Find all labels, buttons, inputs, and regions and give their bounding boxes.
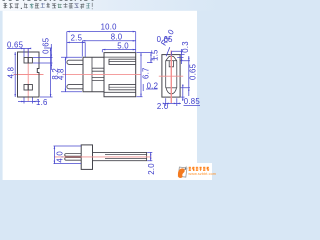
view2 latch lower	[92, 78, 104, 81]
top remnant dashes	[3, 0, 94, 1]
cut-off text remnant row	[3, 0, 5, 1]
view3 inner wall right	[176, 61, 178, 88]
view1 top contact left	[24, 58, 28, 64]
view1 top contact right	[28, 58, 32, 64]
dim 2.0 v3: lines + extensions	[166, 98, 181, 106]
svg-text:0.85: 0.85	[184, 97, 201, 106]
dim 0.3: line + extension	[172, 49, 185, 64]
svg-text:0.2: 0.2	[147, 81, 159, 90]
view1 body outline	[18, 52, 40, 97]
svg-text:0.3: 0.3	[181, 41, 190, 53]
svg-text:2.5: 2.5	[71, 33, 83, 42]
dim 0.2: leader + underline	[143, 84, 157, 91]
dim 0.65 v1 right rotated: line + extensions	[33, 44, 53, 70]
dim 6.7: line + extensions	[137, 53, 153, 97]
svg-text:2.0: 2.0	[157, 102, 169, 111]
view3 top contact slot	[169, 61, 173, 67]
view1 red vertical centerline	[27, 48, 29, 102]
dim 8.0: line + extension	[82, 41, 135, 57]
view3 outer rect	[162, 55, 180, 98]
view1 bottom contact left	[24, 85, 28, 91]
dim 4.0 v4: line + extensions	[54, 146, 82, 164]
svg-text:0.65: 0.65	[188, 63, 197, 80]
dim 0.65 v3 right: line + extensions	[181, 56, 190, 96]
watermark CJK line (simulated): 深圳西美五金加工网	[189, 167, 210, 171]
svg-text:1.5: 1.5	[151, 49, 160, 61]
watermark white box	[197, 163, 212, 180]
dim 0.65 v1 top: line + extensions	[7, 48, 30, 57]
top caption text (simulated CJK): 各位亲. 谁家有这个东东的请联系我!	[4, 3, 8, 9]
dim 4.8 v1 left: line	[14, 52, 16, 97]
svg-text:10.0: 10.0	[101, 22, 118, 31]
logo tilted square	[178, 167, 187, 177]
top text line (simulated CJK)	[4, 3, 93, 10]
view2 red centerline	[64, 73, 141, 75]
dim 0.65 v2 top-right leader	[153, 56, 155, 61]
view2 top slot inner line	[109, 61, 136, 63]
view4 barrel inner lines	[105, 155, 147, 159]
arrowheads	[21, 48, 31, 50]
view3 inner wall left	[165, 61, 167, 88]
view2 latch upper	[92, 68, 104, 71]
dim 2.5: line + extension	[67, 42, 85, 57]
view4 barrel outline	[93, 152, 147, 160]
dim 4.8 v2: line + extensions	[61, 57, 82, 92]
view4 lower prong pill	[65, 158, 81, 161]
logo pen nib	[184, 166, 186, 170]
view2 plate inner line	[91, 57, 93, 92]
view1 bottom contact right	[28, 85, 32, 91]
view3 red horizontal centerline	[159, 75, 183, 77]
view2 left plate	[83, 57, 104, 92]
page background	[0, 0, 220, 180]
svg-text:0.65: 0.65	[7, 40, 24, 49]
svg-text:0.65: 0.65	[42, 37, 51, 54]
view4 body rect	[81, 145, 92, 170]
view1 red horizontal centerline	[14, 74, 44, 76]
svg-text:8.0: 8.0	[111, 33, 123, 42]
view2 main body	[104, 53, 136, 97]
dim 5.0: line + extension	[102, 50, 135, 53]
view2 top prong pill	[67, 60, 83, 64]
svg-text:6.7: 6.7	[142, 67, 151, 79]
dim 10.0: line + extensions	[67, 32, 136, 59]
dim 2.0 v4: line + extensions	[147, 152, 152, 160]
view2 top slot	[109, 59, 136, 64]
view3 dome base line	[166, 60, 177, 62]
logo orange blob	[178, 168, 185, 178]
dim 1.6 v1 bottom: line + extensions	[18, 98, 40, 104]
view3 red vertical centerline	[170, 51, 172, 104]
view2 bottom slot	[109, 85, 136, 90]
dim 0.85: line + extension	[181, 85, 200, 106]
dim 1.5: line + extension	[147, 53, 153, 63]
svg-text:4.0: 4.0	[56, 151, 65, 163]
view4 red centerline	[54, 156, 152, 158]
svg-text:www.szbbt.com: www.szbbt.com	[188, 172, 216, 176]
view3 top dome	[166, 56, 177, 60]
white drawing canvas	[3, 11, 197, 180]
svg-text:2.0: 2.0	[147, 163, 156, 175]
view2 body inner step lines	[104, 57, 136, 92]
svg-text:4.8: 4.8	[57, 68, 66, 80]
svg-text:4.8: 4.8	[6, 67, 15, 79]
dim R1.0 leader	[166, 47, 170, 56]
view3 bottom bowl	[166, 88, 176, 94]
view3 bottom shelf line	[166, 87, 177, 89]
svg-text:1.6: 1.6	[36, 98, 48, 107]
view2 bottom prong pill	[67, 85, 83, 89]
view4 upper prong pill	[65, 154, 81, 157]
view2 bottom slot inner line	[109, 86, 136, 88]
dim 8.2: vertical line + extensions	[40, 48, 53, 97]
svg-text:5.0: 5.0	[117, 41, 129, 50]
